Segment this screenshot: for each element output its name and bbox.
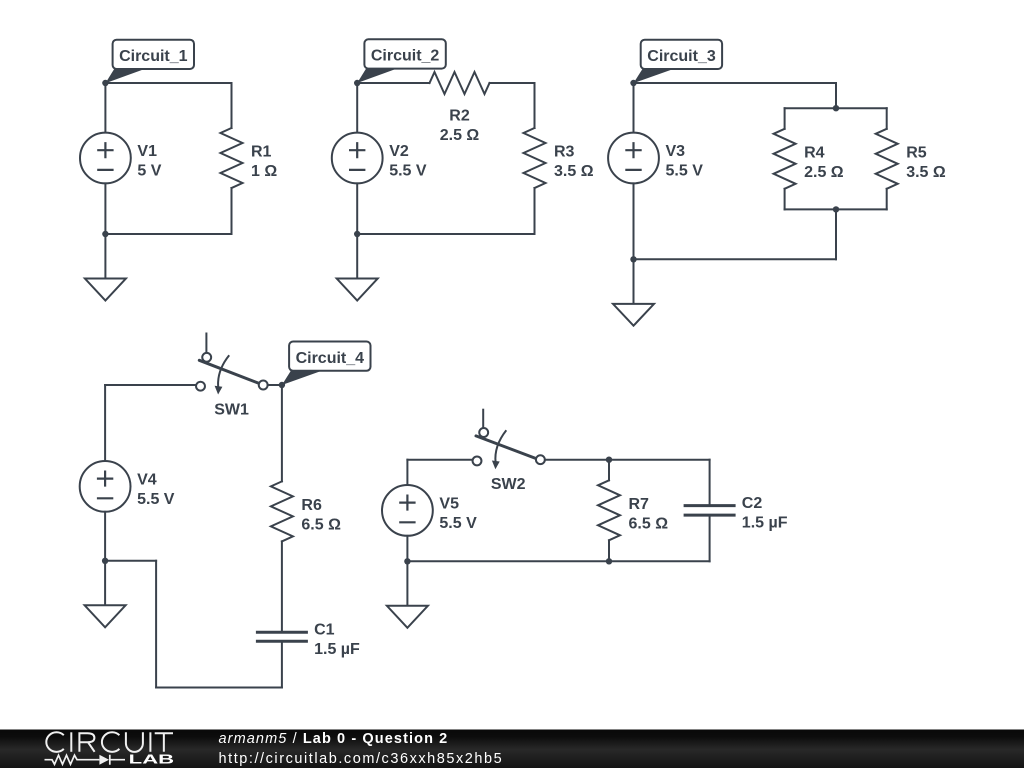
node parallel bottom junction: [833, 206, 839, 212]
switch SW1: [196, 353, 268, 395]
voltage source V3: [608, 133, 659, 184]
svg-text:armanm5 / Lab 0 - Question 2: armanm5 / Lab 0 - Question 2: [219, 731, 449, 747]
label C1 value: [314, 622, 360, 659]
voltage source V1: [80, 133, 131, 184]
svg-text:5.5 V: 5.5 V: [439, 515, 477, 532]
label R3 value: [554, 144, 594, 181]
wire bottom C1: [105, 233, 231, 235]
wire V5 top lead: [406, 460, 408, 485]
wire top-left C5: [407, 459, 472, 461]
capacitor C1: [256, 632, 308, 641]
wire node to R6: [281, 385, 283, 481]
ground C4: [85, 561, 126, 628]
label SW2: [491, 476, 526, 493]
svg-text:6.5 Ω: 6.5 Ω: [629, 515, 669, 532]
footer url text: [219, 751, 504, 767]
net label Circuit_1: [105, 40, 194, 83]
net label Circuit_3: [634, 40, 723, 83]
wire top C1: [105, 82, 231, 84]
svg-text:2.5 Ω: 2.5 Ω: [804, 164, 844, 181]
net label Circuit_4: [282, 342, 371, 386]
wire top C3: [634, 82, 837, 84]
node C2 bottom junction: [354, 231, 360, 237]
ground C3: [613, 259, 654, 325]
svg-text:LAB: LAB: [129, 753, 175, 767]
net label Circuit_2: [357, 39, 446, 83]
wire R7 top lead: [608, 460, 610, 481]
svg-text:R4: R4: [804, 144, 825, 161]
resistor R3: [524, 128, 546, 188]
wire bottom C4: [156, 687, 282, 689]
wire SW1 top stub: [205, 334, 207, 353]
svg-text:R3: R3: [554, 144, 575, 161]
label V4 value: [137, 471, 175, 508]
wire parallel bottom bar: [785, 208, 887, 210]
wire right-top C1: [231, 83, 233, 128]
label R2 value: [440, 108, 480, 145]
label V1 value: [137, 143, 161, 180]
switch SW2: [473, 428, 545, 469]
svg-text:5 V: 5 V: [137, 163, 161, 180]
label SW1: [214, 401, 249, 418]
node C5 bottom-left junction: [404, 558, 410, 564]
label R1 value: [251, 144, 277, 181]
svg-text:1.5 µF: 1.5 µF: [742, 515, 788, 532]
svg-text:V2: V2: [389, 143, 409, 160]
label R4 value: [804, 144, 844, 181]
svg-text:SW2: SW2: [491, 476, 526, 493]
node C3 bottom junction: [630, 256, 636, 262]
wire SW2 to node: [545, 459, 710, 461]
svg-text:Circuit_1: Circuit_1: [119, 48, 188, 65]
svg-text:6.5 Ω: 6.5 Ω: [301, 516, 341, 533]
svg-text:3.5 Ω: 3.5 Ω: [906, 164, 946, 181]
wire top-left C2: [357, 82, 429, 84]
CircuitLab logo wordmark: [46, 732, 174, 766]
svg-text:1.5 µF: 1.5 µF: [314, 641, 360, 658]
resistor R5: [876, 129, 898, 189]
wire V3 top lead: [633, 83, 635, 133]
capacitor C2: [684, 506, 736, 515]
CircuitLab logo resistor-diode glyph: [45, 755, 126, 765]
svg-text:V5: V5: [439, 495, 459, 512]
wire V2 bottom lead: [356, 183, 358, 234]
svg-text:R7: R7: [629, 496, 650, 513]
ground C5: [387, 561, 428, 628]
label V3 value: [666, 143, 704, 180]
label R7 value: [629, 496, 669, 533]
voltage source V5: [382, 485, 433, 536]
ground C2: [337, 234, 378, 301]
resistor R4: [774, 129, 796, 189]
wire V5 bottom lead: [406, 536, 408, 562]
wire R7 bottom lead: [608, 540, 610, 561]
svg-text:Circuit_3: Circuit_3: [647, 48, 716, 65]
wire right-bottom C2: [534, 188, 536, 234]
svg-text:5.5 V: 5.5 V: [666, 163, 704, 180]
wire V3 bottom lead: [633, 183, 635, 259]
wire left riser C4: [155, 561, 157, 688]
svg-text:R5: R5: [906, 144, 927, 161]
wire SW1 to node: [268, 384, 282, 386]
svg-text:3.5 Ω: 3.5 Ω: [554, 163, 594, 180]
footer bar: [0, 730, 1024, 768]
svg-text:R6: R6: [301, 497, 322, 514]
footer title text: [219, 731, 449, 747]
svg-text:5.5 V: 5.5 V: [389, 163, 427, 180]
wire R6 to C1: [281, 541, 283, 632]
wire C2 bottom lead: [709, 515, 711, 561]
wire V4 bottom lead: [104, 512, 106, 561]
svg-text:V1: V1: [137, 143, 157, 160]
wire right-bottom C1: [231, 188, 233, 234]
node parallel top junction: [833, 105, 839, 111]
label R5 value: [906, 144, 946, 181]
wire R5 top lead: [886, 108, 888, 129]
wire R4 bottom lead: [784, 189, 786, 210]
svg-text:C2: C2: [742, 495, 763, 512]
voltage source V4: [80, 461, 131, 512]
node C (Circuit_3 top): [630, 80, 636, 86]
label V2 value: [389, 143, 427, 180]
node E (R7 top junction): [606, 457, 612, 463]
wire right-top C2: [534, 83, 536, 128]
wire C1 bottom: [281, 641, 283, 687]
resistor R6: [271, 481, 293, 541]
node C1 bottom junction: [102, 231, 108, 237]
label R6 value: [301, 497, 341, 534]
resistor R2: [430, 72, 490, 94]
node B (Circuit_2 top): [354, 80, 360, 86]
wire left to SW1: [105, 384, 196, 386]
svg-text:Circuit_2: Circuit_2: [371, 48, 440, 65]
wire V2 top lead: [356, 83, 358, 133]
svg-text:2.5 Ω: 2.5 Ω: [440, 127, 480, 144]
wire bottom C3: [634, 258, 837, 260]
node A (Circuit_1 top): [102, 80, 108, 86]
label V5 value: [439, 495, 477, 532]
resistor R7: [598, 480, 620, 540]
svg-text:C1: C1: [314, 622, 335, 639]
wire parallel top bar: [785, 107, 887, 109]
wire R5 bottom lead: [886, 189, 888, 210]
voltage source V2: [332, 133, 383, 184]
label C2 value: [742, 495, 788, 531]
svg-text:http://circuitlab.com/c36xxh85: http://circuitlab.com/c36xxh85x2hb5: [219, 751, 504, 767]
node R7 bottom junction: [606, 558, 612, 564]
wire top-right C2: [490, 82, 535, 84]
wire V1 bottom lead: [104, 183, 106, 234]
wire bottom-left C4: [105, 560, 156, 562]
wire SW2 top stub: [482, 410, 484, 428]
svg-text:V4: V4: [137, 471, 157, 488]
svg-text:Circuit_4: Circuit_4: [296, 350, 365, 367]
wire right drop C3: [835, 83, 837, 108]
svg-text:1 Ω: 1 Ω: [251, 163, 277, 180]
svg-text:V3: V3: [666, 143, 686, 160]
wire C2 top lead: [709, 460, 711, 506]
ground C1: [85, 234, 126, 301]
svg-text:5.5 V: 5.5 V: [137, 491, 175, 508]
wire V1 top lead: [104, 83, 106, 133]
wire R4 top lead: [784, 108, 786, 129]
wire bottom C5: [407, 560, 709, 562]
wire down from parallel C3: [835, 209, 837, 259]
wire bottom C2: [357, 233, 534, 235]
resistor R1: [221, 128, 243, 188]
node D (Circuit_4 top): [279, 382, 285, 388]
svg-text:R2: R2: [449, 108, 470, 125]
svg-text:R1: R1: [251, 144, 272, 161]
wire V4 top lead: [104, 385, 106, 461]
node C4 bottom junction: [102, 558, 108, 564]
svg-text:SW1: SW1: [214, 401, 249, 418]
